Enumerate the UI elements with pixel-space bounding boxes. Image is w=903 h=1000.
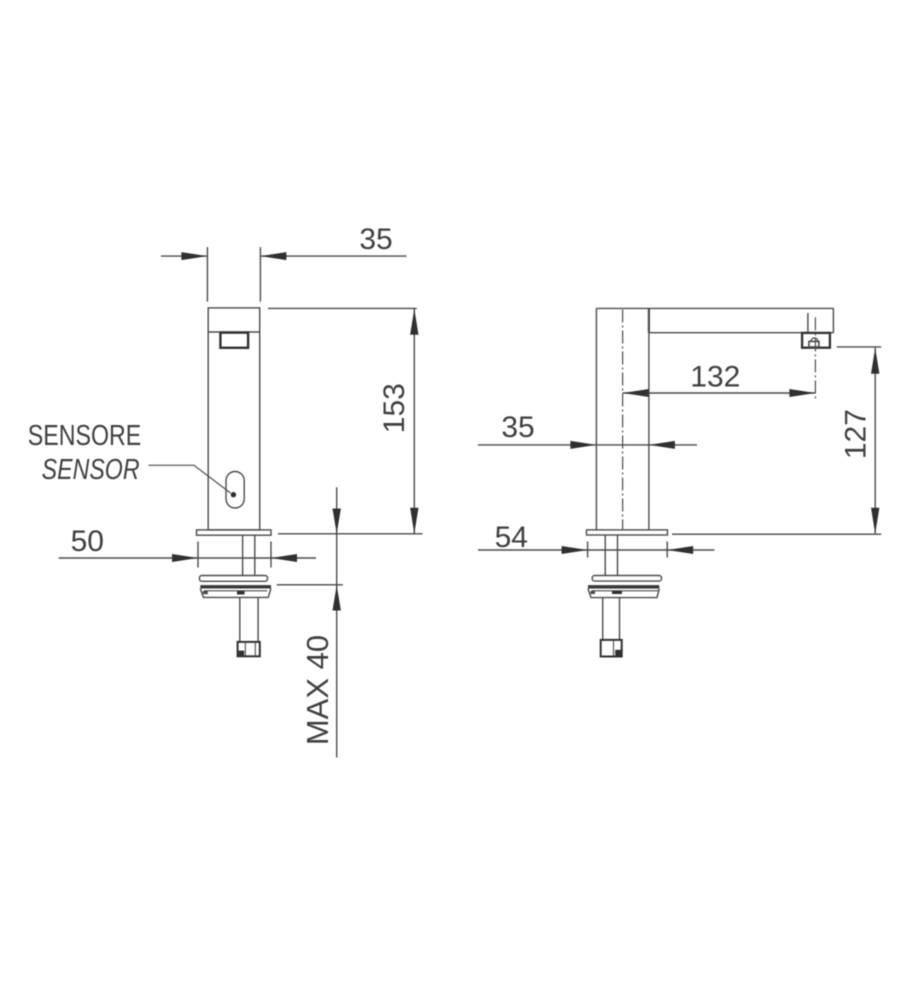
svg-text:54: 54 xyxy=(495,521,528,554)
svg-text:127: 127 xyxy=(840,409,873,459)
svg-text:35: 35 xyxy=(501,411,534,444)
svg-text:50: 50 xyxy=(71,525,104,558)
svg-text:35: 35 xyxy=(359,223,392,256)
svg-text:SENSORE: SENSORE xyxy=(28,418,141,451)
svg-text:153: 153 xyxy=(378,383,411,433)
svg-text:132: 132 xyxy=(690,361,740,394)
svg-text:MAX 40: MAX 40 xyxy=(300,635,335,745)
svg-text:SENSOR: SENSOR xyxy=(42,452,140,485)
